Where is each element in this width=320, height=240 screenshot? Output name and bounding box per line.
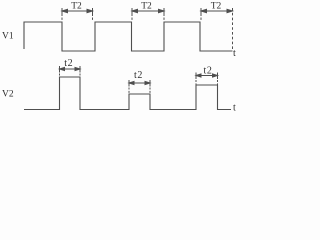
svg-text:t2: t2 <box>64 58 73 69</box>
svg-text:V1: V1 <box>2 32 14 42</box>
svg-text:T2: T2 <box>211 2 222 12</box>
svg-text:t2: t2 <box>134 70 143 81</box>
svg-text:t: t <box>233 48 236 59</box>
svg-text:t: t <box>233 103 236 114</box>
svg-text:T2: T2 <box>71 2 82 12</box>
svg-text:V2: V2 <box>2 90 14 100</box>
svg-text:t2: t2 <box>204 66 213 77</box>
svg-text:T2: T2 <box>141 2 152 12</box>
